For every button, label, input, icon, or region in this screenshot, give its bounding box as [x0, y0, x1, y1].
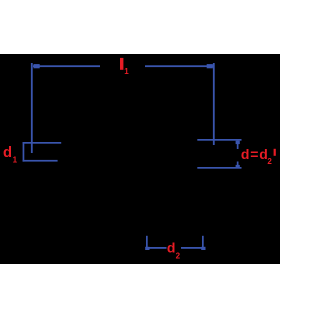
- left bracket top line: [23, 142, 62, 144]
- label l1 stem: [120, 58, 123, 70]
- svg-text:d: d: [167, 239, 176, 255]
- left bracket bottom line: [23, 160, 58, 162]
- bottom bracket line left segment: [146, 247, 167, 249]
- svg-text:d: d: [3, 145, 12, 161]
- vertical dimension line d lower segment: [237, 162, 239, 169]
- extension line left (x=31.5, y 63-153): [31, 63, 33, 153]
- svg-text:2: 2: [267, 157, 272, 166]
- dimension line l1 left segment: [33, 65, 100, 67]
- vertical dimension line d upper segment: [237, 141, 239, 149]
- arrowhead right of l1 line: [207, 64, 213, 68]
- svg-text:1: 1: [13, 156, 18, 165]
- right bracket bottom line: [197, 167, 241, 169]
- extension line right (x=213.5, y 63-145): [213, 63, 215, 145]
- right bracket top line: [197, 139, 241, 141]
- left bracket vertical edge: [23, 142, 25, 162]
- svg-text:1: 1: [124, 67, 129, 76]
- arrowhead left of l1 line: [34, 64, 40, 68]
- svg-text:d=d: d=d: [241, 146, 269, 162]
- bottom bracket line right segment: [181, 247, 204, 249]
- arrowhead top of d dimension: [236, 141, 240, 144]
- arrowhead bottom of d dimension: [236, 165, 240, 168]
- svg-text:2: 2: [176, 251, 181, 260]
- bottom bracket right corner foot: [201, 247, 205, 250]
- bottom bracket left corner foot: [145, 247, 149, 250]
- dimension line l1 right segment: [145, 65, 213, 67]
- bottom bracket left tick: [146, 236, 148, 249]
- cut-off character at right edge: [274, 149, 276, 156]
- black middle band: [0, 54, 280, 264]
- bottom bracket right tick: [202, 236, 204, 249]
